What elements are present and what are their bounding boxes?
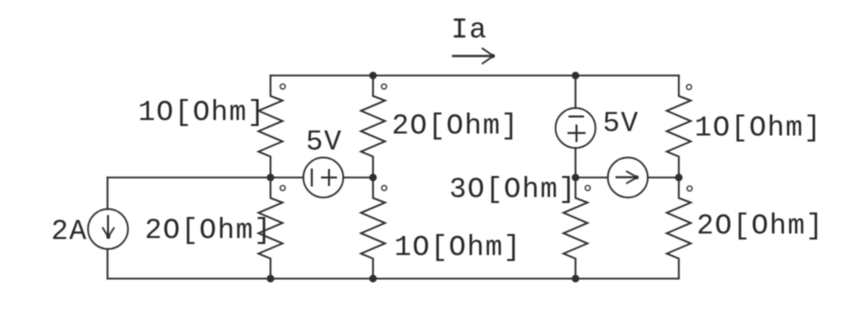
- svg-text:2A: 2A: [51, 215, 87, 248]
- resistor 20[Ohm] node C top: [361, 76, 385, 178]
- pin circle C middle: [382, 186, 387, 191]
- pin circle B top: [280, 84, 285, 89]
- wire bottom rail: [108, 278, 679, 280]
- node junction B bottom: [267, 275, 275, 283]
- resistor 10[Ohm] node B top: [259, 76, 283, 178]
- node junction D middle: [572, 174, 580, 182]
- svg-text:2O[Ohm]: 2O[Ohm]: [697, 210, 824, 243]
- wire middle rail right segment D to source: [576, 177, 608, 179]
- node junction D bottom: [572, 275, 580, 283]
- pin circle E middle: [687, 186, 692, 191]
- current arrow Ia: [453, 49, 495, 64]
- pin circle D middle: [585, 186, 590, 191]
- current source 2A: [88, 209, 128, 249]
- node junction E middle: [675, 174, 683, 182]
- resistor 10[Ohm] node E top: [667, 76, 691, 178]
- resistor 30[Ohm] node D bottom: [564, 178, 588, 279]
- svg-text:2O[Ohm]: 2O[Ohm]: [392, 110, 519, 143]
- svg-text:1O[Ohm]: 1O[Ohm]: [394, 231, 521, 264]
- current source arrow-right between D and E: [608, 158, 648, 198]
- resistor 20[Ohm] node E bottom: [667, 178, 691, 279]
- svg-text:3O[Ohm]: 3O[Ohm]: [449, 173, 576, 206]
- node junction B middle: [267, 174, 275, 182]
- resistor 20[Ohm] node B bottom: [259, 178, 283, 279]
- svg-text:5V: 5V: [603, 107, 639, 140]
- node junction D top: [572, 72, 580, 80]
- pin circle E top: [687, 85, 692, 90]
- wire middle rail left segment: [108, 177, 304, 179]
- node junction C bottom: [369, 275, 377, 283]
- voltage source 5V vertical on node D branch: [556, 76, 596, 178]
- node junction C middle: [369, 174, 377, 182]
- svg-text:5V: 5V: [306, 126, 342, 159]
- svg-text:1O[Ohm]: 1O[Ohm]: [695, 111, 822, 144]
- voltage source 5V horizontal between B and C: [303, 158, 343, 198]
- pin circle B middle: [280, 186, 285, 191]
- pin circle C top: [382, 84, 387, 89]
- svg-text:2O[Ohm]: 2O[Ohm]: [145, 214, 272, 247]
- wire left branch lower (2A source to bottom rail): [107, 249, 109, 279]
- svg-text:Ia: Ia: [451, 14, 487, 47]
- node junction C top: [369, 72, 377, 80]
- wire left branch upper (node to 2A source): [107, 178, 109, 210]
- resistor 10[Ohm] node C bottom: [361, 178, 385, 279]
- svg-text:1O[Ohm]: 1O[Ohm]: [138, 96, 265, 129]
- wire middle rail between source and node C: [343, 177, 373, 179]
- wire middle rail source to node E: [648, 177, 679, 179]
- wire top rail: [271, 75, 679, 77]
